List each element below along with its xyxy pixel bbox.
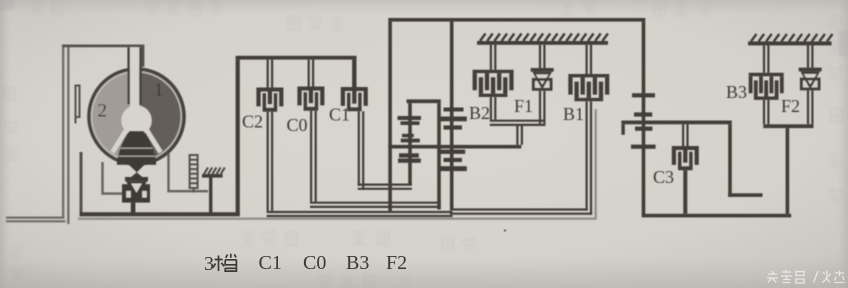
ground symbol near torque converter (202, 174, 223, 178)
svg-text:B3: B3 (346, 252, 369, 274)
torque converter housing top edge (62, 45, 144, 67)
svg-text:C2: C2 (242, 112, 263, 132)
svg-text:C1: C1 (329, 105, 350, 125)
svg-text:F2: F2 (386, 252, 407, 274)
B2/F1 junction U and descender (490, 120, 546, 126)
svg-text:F2: F2 (781, 96, 800, 116)
bottom bus right section (642, 214, 792, 218)
one-way clutch F1 (539, 45, 546, 68)
middle ground hatching (480, 34, 608, 42)
torque converter pump (1) dark half (137, 71, 183, 163)
B3/F2 junction bar (763, 124, 813, 128)
svg-text:C0: C0 (287, 115, 308, 135)
right ground bar (748, 41, 832, 45)
top drum right descender (642, 22, 646, 94)
main center shaft (rear column) (450, 22, 454, 210)
inner housing U right of stator (167, 153, 208, 192)
clutch C2 (267, 60, 274, 88)
svg-text:1: 1 (154, 80, 164, 101)
input bus over clutches C2 C0 C1 (236, 56, 357, 60)
front planetary gear bars (left column) (398, 116, 422, 120)
top drum box line (388, 18, 645, 22)
C2 output drum lines (267, 112, 274, 211)
stator owc stem (131, 203, 136, 214)
output case light line (78, 109, 597, 220)
shaft channel edges (127, 47, 129, 104)
front planetary shaft (left gear column) (408, 103, 412, 184)
engine input flange bar (75, 85, 81, 119)
watermark bottom right (drawn strokes, light) (767, 270, 845, 283)
brake B1 (586, 45, 593, 74)
svg-text:3: 3 (204, 253, 214, 275)
bus left riser down to turbine line (236, 60, 240, 215)
white center hub circle (121, 105, 151, 135)
ground riser from stator owc (209, 177, 212, 214)
middle ground bar (477, 41, 608, 45)
stator cone (117, 131, 157, 165)
torque converter outer ring (89, 69, 184, 164)
carrier link line to B2/F1 (388, 145, 521, 149)
svg-text:C0: C0 (303, 252, 326, 274)
clutch C3 (682, 124, 689, 146)
B1 drum bottom run (450, 208, 592, 214)
svg-text:2: 2 (98, 101, 108, 122)
pump inner wall line (101, 162, 122, 195)
white V channels beside stator (110, 127, 164, 158)
right gear bars (632, 93, 655, 97)
stator spline ladder (190, 155, 198, 193)
torque converter circle: turbine (2) light half (91, 71, 183, 163)
C0 output drum lines (310, 111, 317, 202)
front planetary drum (inverted U) (407, 99, 441, 103)
C1 output lines (358, 111, 365, 190)
torque converter outer housing (light double line) (6, 47, 70, 225)
svg-text:B2: B2 (469, 103, 490, 123)
carrier left tick (621, 124, 624, 135)
turbine output line (thick bottom line of TC) (80, 152, 83, 213)
caption: 3rd gear elements (204, 252, 407, 275)
svg-text:C1: C1 (259, 252, 282, 274)
rear shaft column (far right) (642, 93, 646, 215)
brake B2 (490, 45, 497, 70)
svg-text:F1: F1 (514, 96, 533, 116)
svg-text:C3: C3 (653, 167, 674, 187)
one-way clutch F2 (807, 45, 814, 67)
clutch C1 (352, 60, 356, 87)
B3/F2 riser to bottom bus (786, 128, 790, 214)
output stub (728, 193, 762, 197)
turbine shaft white channel (130, 47, 139, 107)
rear planetary gear bars (center column) (444, 108, 464, 112)
clutch C0 (308, 60, 315, 87)
flange foot (75, 118, 77, 124)
carrier hook down to stub (728, 124, 732, 197)
right ground hatching (751, 34, 833, 42)
paper speck (504, 229, 507, 232)
caption hanzi dang (gear) drawn as strokes (213, 254, 237, 271)
stator hub bowtie (129, 165, 145, 179)
top drum left descender (388, 22, 392, 213)
svg-text:B3: B3 (726, 82, 747, 102)
stator one-way clutch (122, 177, 150, 203)
rear carrier line (621, 121, 731, 125)
brake B3 (763, 45, 770, 72)
svg-text:B1: B1 (563, 104, 584, 124)
B1 drum descender (586, 101, 593, 214)
